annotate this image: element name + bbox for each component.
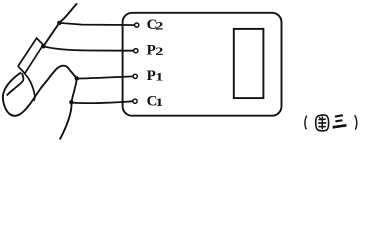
terminal C1	[133, 99, 137, 103]
svg-text:1: 1	[155, 96, 163, 109]
junction dot (P1 tap)	[75, 76, 79, 80]
caption close paren	[355, 115, 357, 129]
rod tip	[7, 73, 24, 96]
terminal P1	[133, 74, 137, 78]
wire end lashing at rod bottom	[25, 74, 35, 101]
svg-text:2: 2	[155, 19, 163, 32]
wire tail below C1 dot	[60, 102, 72, 139]
meter box outline	[123, 13, 282, 116]
wire between P1 and C1 dots	[71, 78, 76, 102]
wire to P2 terminal	[43, 46, 134, 51]
meter display window	[234, 29, 264, 98]
ground rod upper shaft	[43, 3, 77, 46]
wire to C2 terminal	[59, 23, 135, 25]
junction dot (C1 tap)	[69, 100, 73, 104]
wire to C1 terminal	[71, 101, 133, 103]
terminal P2	[134, 49, 138, 53]
junction dot on rod (C2 tap)	[57, 21, 61, 25]
caption open paren	[305, 116, 307, 130]
rod body rectangle	[18, 38, 43, 73]
svg-text:1: 1	[155, 70, 163, 83]
caption character san (three)	[333, 115, 347, 127]
terminal C2	[135, 23, 139, 27]
svg-text:2: 2	[155, 45, 163, 58]
lead wire loop from P1 dot around rod tip	[3, 66, 77, 116]
caption character tu (figure)	[316, 115, 329, 131]
wire to P1 terminal	[77, 76, 134, 78]
junction dot on rod (P2 tap)	[41, 44, 46, 49]
